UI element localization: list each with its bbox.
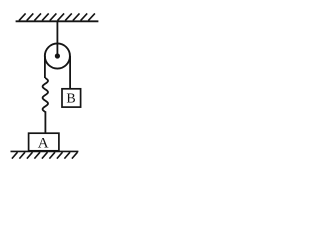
block A bbox=[29, 133, 59, 151]
right rope bbox=[69, 56, 71, 89]
svg-text:B: B bbox=[66, 92, 75, 107]
ceiling line bbox=[16, 20, 99, 22]
spring bbox=[43, 78, 48, 112]
pulley axle bbox=[55, 53, 60, 58]
svg-text:A: A bbox=[38, 136, 49, 152]
floor hatching bbox=[12, 152, 78, 158]
floor line bbox=[11, 150, 79, 152]
block B bbox=[62, 89, 81, 107]
ceiling hatching bbox=[19, 13, 95, 20]
hanger wire bbox=[56, 21, 58, 56]
pulley wheel bbox=[45, 43, 70, 68]
rod (spring to block A) bbox=[44, 111, 46, 133]
left rope (pulley to spring) bbox=[44, 56, 46, 78]
